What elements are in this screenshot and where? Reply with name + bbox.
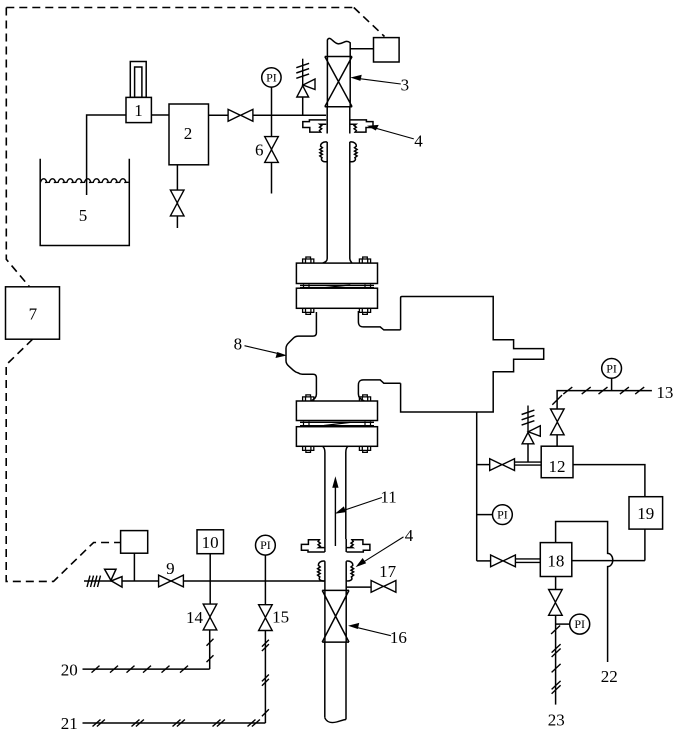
svg-text:20: 20 — [61, 660, 78, 679]
svg-text:8: 8 — [234, 335, 243, 354]
svg-text:14: 14 — [186, 608, 204, 627]
svg-text:1: 1 — [134, 101, 143, 120]
svg-text:22: 22 — [601, 667, 618, 686]
svg-text:10: 10 — [202, 533, 219, 552]
svg-text:PI: PI — [260, 538, 271, 552]
svg-text:4: 4 — [405, 526, 414, 545]
svg-text:11: 11 — [380, 488, 396, 507]
svg-text:6: 6 — [255, 140, 264, 159]
svg-text:12: 12 — [549, 457, 566, 476]
svg-text:9: 9 — [166, 559, 175, 578]
svg-text:4: 4 — [414, 132, 423, 151]
svg-text:18: 18 — [547, 551, 564, 570]
svg-text:2: 2 — [184, 124, 193, 143]
svg-text:PI: PI — [266, 70, 277, 84]
svg-text:13: 13 — [656, 383, 673, 402]
svg-text:PI: PI — [497, 508, 508, 522]
svg-text:5: 5 — [79, 206, 88, 225]
svg-text:17: 17 — [379, 562, 397, 581]
svg-text:15: 15 — [272, 607, 289, 626]
svg-text:21: 21 — [61, 714, 78, 733]
svg-text:23: 23 — [548, 711, 565, 730]
svg-text:7: 7 — [29, 304, 38, 323]
svg-text:PI: PI — [606, 361, 617, 375]
svg-text:3: 3 — [401, 76, 410, 95]
svg-text:PI: PI — [574, 617, 585, 631]
svg-text:16: 16 — [390, 628, 407, 647]
svg-text:19: 19 — [637, 504, 654, 523]
